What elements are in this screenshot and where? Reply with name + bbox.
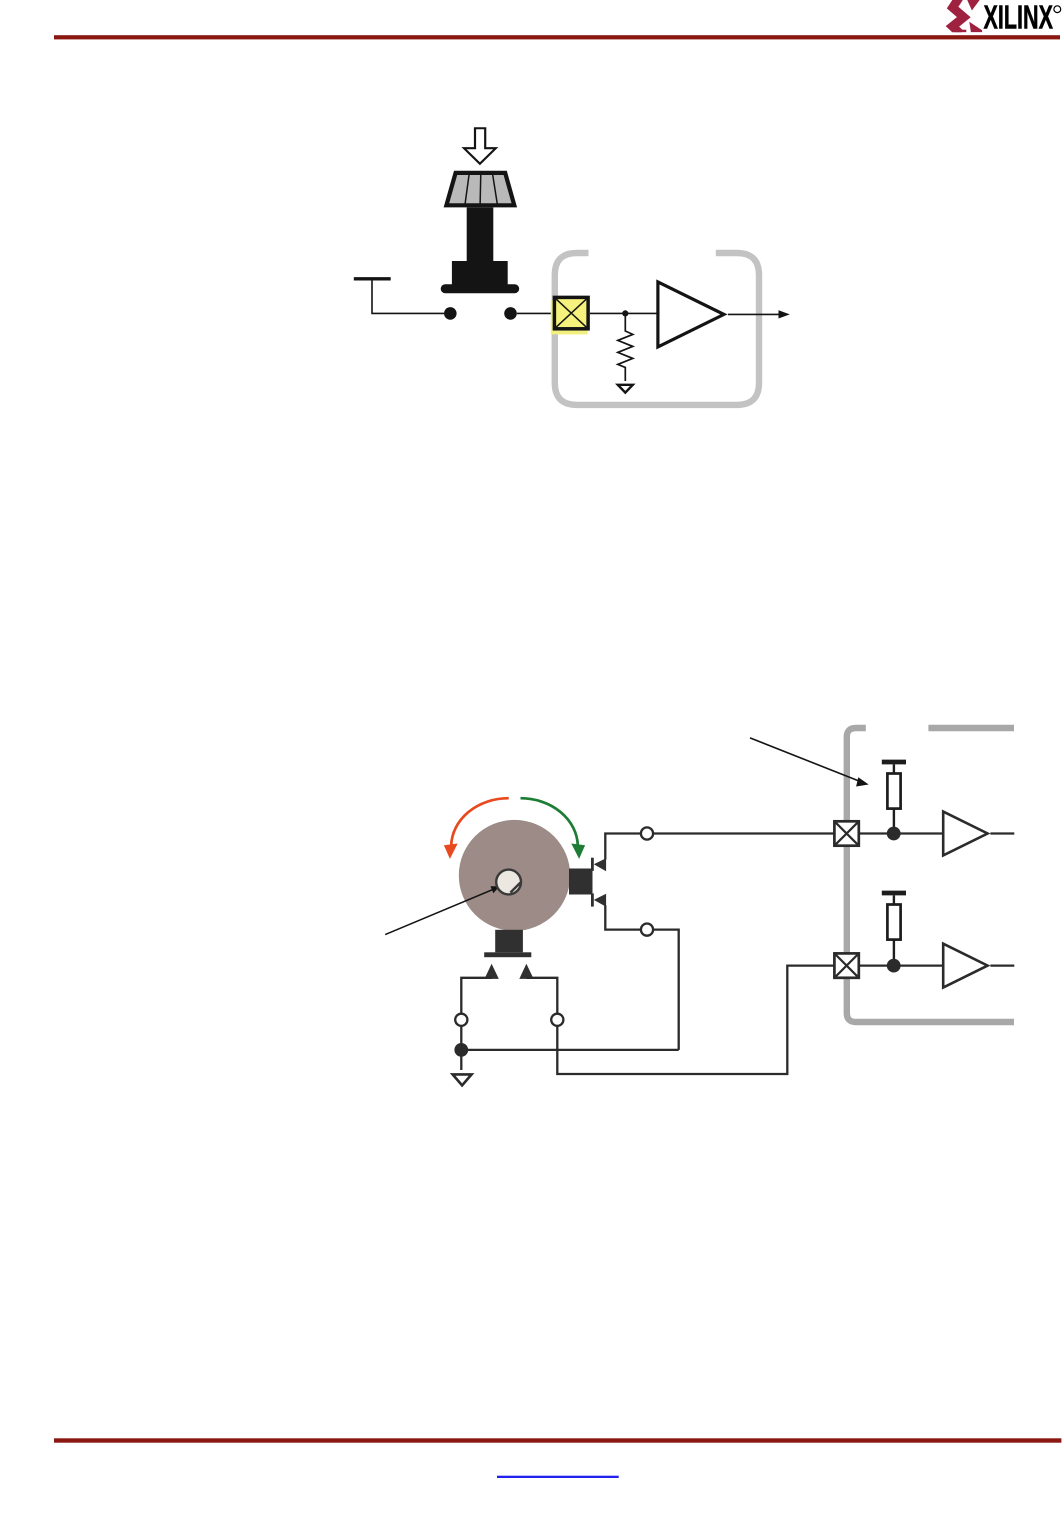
buffer output wire (top) [990,832,1014,834]
arrowhead [779,310,790,318]
input buffer (fig1) [658,282,724,347]
terminal (open circle) B [641,924,653,936]
wiper contact A [591,858,594,871]
wire B' to terminal [526,978,557,1014]
switch contact right [504,307,517,320]
junction node [622,310,628,316]
stem to junction [893,940,895,966]
header rule [54,35,1060,39]
annotation arrow to pull-up resistor [750,738,862,782]
push-button base plate [441,284,520,293]
encoder pedestal base [484,952,531,957]
switch contact left [444,307,457,320]
FPGA boundary top-right segment [928,725,1014,731]
wire contact to pin [517,312,553,314]
junction dot (bottom pin) [887,959,901,973]
svg-text:XILINX: XILINX [984,0,1054,36]
VCC rail symbol [354,277,391,280]
rotary shaft (end view) [459,820,570,931]
footer rule [54,1438,1061,1442]
IOB pin box (top) [834,821,858,845]
pull-up resistor (bottom) [887,905,900,940]
encoder pedestal [495,930,523,953]
wire junction to contact B riser [461,1049,678,1051]
wire pin to buffer [590,312,657,314]
shaft slot [510,883,520,893]
stem to junction [893,809,895,834]
wire terminal B' to pin 2 [557,966,834,1074]
ground (fig1) [618,385,633,393]
wiper contact B [591,893,594,906]
common contact B' [519,964,533,979]
pull-up VCC bar (top) [882,760,906,765]
stem [893,895,895,904]
wire contact B down [605,905,641,929]
pull-down resistor (zigzag) [618,313,633,381]
CCW rotation arrow (red) [451,798,509,845]
wire contact A to pin 1 [605,834,641,860]
wire pin 2 to buffer [859,964,942,966]
annotation arrow to shaft [385,889,494,935]
shaft center hole [496,870,521,895]
CW rotation arrow (green) [521,798,578,845]
IOB pin box (bottom) [834,953,858,977]
terminal (open circle) A' [455,1014,467,1026]
ground junction dot [454,1043,468,1057]
push-button stem [467,208,494,262]
common contact A' [485,964,499,979]
press-action down arrow [461,127,498,165]
encoder contact block [569,869,593,895]
wire terminal A' to ground junction [460,1026,462,1070]
footer link underline [497,1476,619,1478]
wire terminal A to pin 1 [653,832,834,834]
pull-up resistor (top) [887,774,900,809]
cap facet lines [465,173,498,205]
IOB pin pad (yellow, shadow) [551,300,588,334]
FPGA boundary bracket (fig1) [555,253,759,405]
wire pin 1 to buffer [859,832,942,834]
registered trademark circle [1054,6,1061,13]
input buffer (bottom) [943,944,987,988]
wire from rail to switch [372,281,444,314]
junction dot (top pin) [887,827,901,841]
wire terminal B to ground junction [653,930,679,1050]
buffer output wire (bottom) [990,964,1014,966]
stem [893,764,895,773]
ground (fig2) [453,1074,472,1085]
terminal (open circle) B' [551,1014,563,1026]
pull-up VCC bar (bottom) [882,891,906,896]
wire A' to terminal [461,978,491,1014]
push-button cap [446,173,514,205]
push-button body [452,261,508,285]
output wire with arrowhead [728,313,779,315]
input buffer (top) [943,812,987,856]
terminal (open circle) A [641,827,653,839]
FPGA boundary bracket (fig2) [847,728,1014,1022]
IOB pin pad (yellow box with X) [554,297,588,328]
